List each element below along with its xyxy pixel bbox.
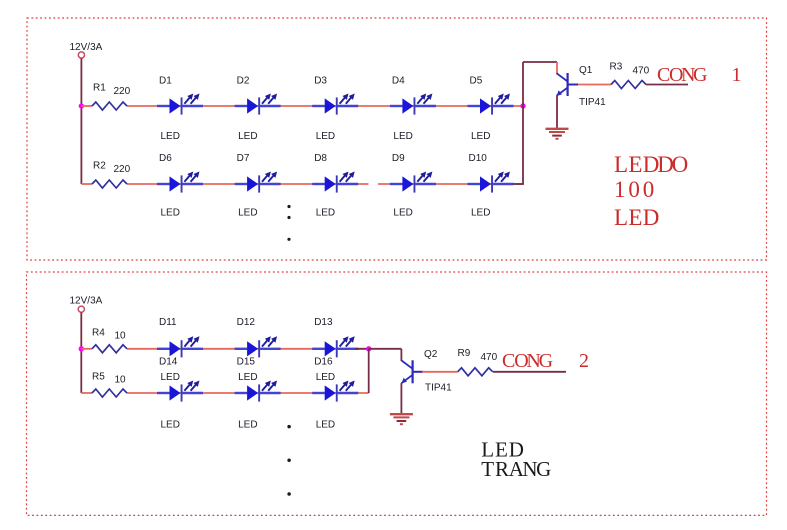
LED D7 bbox=[235, 172, 281, 193]
svg-text:D5: D5 bbox=[470, 76, 483, 87]
wire: collector link horizontal (Q2) bbox=[369, 348, 402, 350]
svg-text:D13: D13 bbox=[314, 317, 333, 328]
resistor R5 bbox=[92, 389, 127, 397]
value LED (D7) bbox=[238, 208, 257, 219]
label 12V/3A (section 2) bbox=[70, 296, 103, 307]
label D11 bbox=[159, 317, 177, 328]
svg-text:LED: LED bbox=[393, 208, 412, 219]
net label CONG 2 bbox=[502, 350, 589, 372]
label D8 bbox=[314, 153, 327, 164]
label D5 bbox=[470, 76, 483, 87]
svg-text:LED: LED bbox=[316, 372, 335, 383]
wire: D13 lead to junction stub bbox=[355, 348, 369, 350]
svg-text:D6: D6 bbox=[159, 153, 172, 164]
svg-text:D8: D8 bbox=[314, 153, 327, 164]
value LED (D11) bbox=[161, 372, 180, 383]
wire: R3 to CONG 1 output bbox=[646, 84, 688, 86]
svg-text:D1: D1 bbox=[159, 76, 172, 87]
resistor R9 bbox=[458, 368, 493, 376]
svg-text:TRANG: TRANG bbox=[481, 457, 551, 481]
LED D9 bbox=[390, 172, 436, 193]
svg-text:D9: D9 bbox=[392, 153, 405, 164]
wire: row2 net (R5 to tie) bbox=[127, 392, 369, 394]
svg-text:Q1: Q1 bbox=[579, 65, 593, 76]
continuation dots (section 1) bbox=[287, 205, 290, 241]
svg-text:R9: R9 bbox=[458, 348, 471, 359]
value 470 (R9) bbox=[481, 352, 498, 363]
svg-text:470: 470 bbox=[633, 66, 650, 77]
svg-text:470: 470 bbox=[481, 352, 498, 363]
svg-text:R1: R1 bbox=[93, 83, 106, 94]
svg-text:D7: D7 bbox=[237, 153, 250, 164]
wire: top link horizontal bbox=[523, 61, 557, 63]
label D3 bbox=[314, 76, 327, 87]
LED D6 bbox=[157, 172, 203, 193]
wire: D10 lead to corner stub bbox=[514, 183, 524, 185]
label D7 bbox=[237, 153, 250, 164]
LED D14 bbox=[157, 381, 203, 402]
wire: corner to R2 bbox=[81, 183, 92, 185]
section 2 dashed box bbox=[27, 272, 767, 515]
wire: junction to R4 bbox=[81, 348, 92, 350]
label R5 bbox=[92, 372, 105, 383]
label TIP41 (Q2) bbox=[425, 382, 452, 393]
value LED (D15) bbox=[238, 420, 257, 431]
value 10 (R5) bbox=[115, 374, 127, 385]
wire: junction to R1 bbox=[81, 105, 92, 107]
LED D13 bbox=[312, 336, 358, 357]
value LED (D9) bbox=[393, 208, 412, 219]
svg-text:LED: LED bbox=[238, 208, 257, 219]
wire: Q1 base to R3 bbox=[578, 84, 611, 86]
LED D8 bbox=[312, 172, 358, 193]
LED D16 bbox=[312, 381, 358, 402]
wire: row1 net (R4 to junction) bbox=[127, 348, 369, 350]
svg-text:CONG: CONG bbox=[502, 350, 553, 372]
svg-text:D16: D16 bbox=[314, 356, 333, 367]
svg-text:D3: D3 bbox=[314, 76, 327, 87]
wire: row1 net (R1 to Q1 collector link) bbox=[127, 105, 523, 107]
junction node supply/R1 bbox=[79, 103, 84, 108]
value LED (D8) bbox=[316, 208, 335, 219]
resistor R4 bbox=[92, 345, 127, 353]
text LED (red caption) bbox=[614, 205, 659, 230]
LED D5 bbox=[468, 94, 514, 115]
svg-text:LED: LED bbox=[316, 131, 335, 142]
resistor R2 bbox=[92, 180, 127, 188]
svg-text:220: 220 bbox=[114, 164, 131, 175]
wire: row2 net segment a bbox=[127, 183, 369, 185]
svg-text:D4: D4 bbox=[392, 76, 405, 87]
wire: vertical tie row2 (section 2) bbox=[368, 349, 370, 393]
label D1 bbox=[159, 76, 172, 87]
label D2 bbox=[237, 76, 250, 87]
wire: Q2 base to R9 bbox=[422, 371, 458, 373]
svg-text:LED: LED bbox=[161, 420, 180, 431]
svg-text:R3: R3 bbox=[610, 61, 623, 72]
wire: row2 net segment b bbox=[378, 183, 523, 185]
value LED (D3) bbox=[316, 131, 335, 142]
section 1 dashed box bbox=[27, 18, 767, 260]
label TIP41 (Q1) bbox=[579, 97, 606, 108]
value 220 (R1) bbox=[114, 86, 131, 97]
svg-text:LED: LED bbox=[161, 131, 180, 142]
svg-text:100: 100 bbox=[614, 177, 654, 202]
net label CONG 1 bbox=[657, 64, 742, 86]
label D6 bbox=[159, 153, 172, 164]
LED D11 bbox=[157, 336, 203, 357]
svg-text:1: 1 bbox=[732, 64, 742, 86]
wire: collector drop bbox=[556, 62, 558, 74]
svg-text:12V/3A: 12V/3A bbox=[70, 42, 103, 53]
label R4 bbox=[92, 327, 105, 338]
svg-text:LED: LED bbox=[614, 205, 659, 230]
svg-text:LED: LED bbox=[238, 372, 257, 383]
value LED (D10) bbox=[471, 208, 490, 219]
ground (section 2) bbox=[390, 414, 413, 424]
svg-text:Q2: Q2 bbox=[424, 349, 438, 360]
text TRANG bbox=[481, 457, 551, 481]
junction node rows to Q2 bbox=[366, 346, 371, 351]
svg-text:LED: LED bbox=[238, 420, 257, 431]
LED D2 bbox=[235, 94, 281, 115]
wire: collector drop (Q2) bbox=[400, 349, 402, 361]
svg-text:D15: D15 bbox=[237, 356, 256, 367]
label D13 bbox=[314, 317, 333, 328]
label D14 bbox=[159, 356, 178, 367]
value 470 (R3) bbox=[633, 66, 650, 77]
svg-text:2: 2 bbox=[579, 350, 589, 372]
svg-text:LED: LED bbox=[393, 131, 412, 142]
label R2 bbox=[93, 161, 106, 172]
label D9 bbox=[392, 153, 405, 164]
svg-text:LED: LED bbox=[161, 372, 180, 383]
junction node row1/row2 to Q1 bbox=[520, 103, 525, 108]
wire: Q1 emitter to ground bbox=[556, 96, 558, 128]
wire: corner to R5 bbox=[81, 392, 92, 394]
label D10 bbox=[469, 153, 488, 164]
label D4 bbox=[392, 76, 405, 87]
LED D15 bbox=[235, 381, 281, 402]
svg-text:LED: LED bbox=[471, 208, 490, 219]
LED D1 bbox=[157, 94, 203, 115]
label R3 bbox=[610, 61, 623, 72]
svg-text:12V/3A: 12V/3A bbox=[70, 296, 103, 307]
label R1 bbox=[93, 83, 106, 94]
LED D10 bbox=[468, 172, 514, 193]
svg-text:220: 220 bbox=[114, 86, 131, 97]
label D12 bbox=[237, 317, 256, 328]
transistor Q2 bbox=[402, 360, 424, 383]
value LED (D13) bbox=[316, 372, 335, 383]
svg-text:10: 10 bbox=[115, 374, 127, 385]
value 10 (R4) bbox=[115, 330, 127, 341]
value LED (D12) bbox=[238, 372, 257, 383]
svg-text:D2: D2 bbox=[237, 76, 250, 87]
wire: R9 to CONG 2 output bbox=[493, 371, 566, 373]
power terminal 12V/3A (section 1) bbox=[78, 52, 84, 58]
LED D12 bbox=[235, 336, 281, 357]
value LED (D5) bbox=[471, 131, 490, 142]
value LED (D6) bbox=[161, 208, 180, 219]
svg-text:LED: LED bbox=[316, 208, 335, 219]
resistor R1 bbox=[92, 102, 127, 110]
continuation dots (section 2) bbox=[287, 425, 291, 496]
value LED (D1) bbox=[161, 131, 180, 142]
svg-text:LEDDO: LEDDO bbox=[614, 152, 688, 177]
value LED (D4) bbox=[393, 131, 412, 142]
ground (section 1) bbox=[546, 129, 569, 139]
svg-text:TIP41: TIP41 bbox=[579, 97, 606, 108]
value LED (D2) bbox=[238, 131, 257, 142]
svg-text:TIP41: TIP41 bbox=[425, 382, 452, 393]
svg-text:D10: D10 bbox=[469, 153, 488, 164]
text LEDDO bbox=[614, 152, 688, 177]
svg-text:R4: R4 bbox=[92, 327, 105, 338]
power terminal 12V/3A (section 2) bbox=[78, 306, 84, 312]
text LED (black caption) bbox=[481, 438, 524, 462]
LED D4 bbox=[390, 94, 436, 115]
LED D3 bbox=[312, 94, 358, 115]
label R9 bbox=[458, 348, 471, 359]
svg-text:10: 10 bbox=[115, 330, 127, 341]
svg-text:D14: D14 bbox=[159, 356, 178, 367]
label Q1 bbox=[579, 65, 593, 76]
transistor Q1 bbox=[557, 73, 579, 96]
resistor R3 bbox=[611, 81, 646, 89]
svg-text:D12: D12 bbox=[237, 317, 256, 328]
junction node supply/R4 bbox=[79, 346, 84, 351]
wire: vertical tie rows to collector bbox=[522, 62, 524, 184]
label D15 bbox=[237, 356, 256, 367]
label Q2 bbox=[424, 349, 438, 360]
value LED (D16) bbox=[316, 420, 335, 431]
svg-text:LED: LED bbox=[316, 420, 335, 431]
svg-text:LED: LED bbox=[238, 131, 257, 142]
svg-text:D11: D11 bbox=[159, 317, 177, 328]
value LED (D14) bbox=[161, 420, 180, 431]
wire: supply feed vertical (section 2) bbox=[80, 312, 82, 393]
svg-text:LED: LED bbox=[161, 208, 180, 219]
svg-text:R5: R5 bbox=[92, 372, 105, 383]
wire: supply feed vertical bbox=[80, 58, 82, 184]
svg-text:CONG: CONG bbox=[657, 64, 707, 86]
label D16 bbox=[314, 356, 333, 367]
label 12V/3A (section 1) bbox=[70, 42, 103, 53]
svg-text:LED: LED bbox=[471, 131, 490, 142]
value 220 (R2) bbox=[114, 164, 131, 175]
text 100 bbox=[614, 177, 654, 202]
svg-text:R2: R2 bbox=[93, 161, 106, 172]
wire: Q2 emitter to ground bbox=[400, 383, 402, 414]
